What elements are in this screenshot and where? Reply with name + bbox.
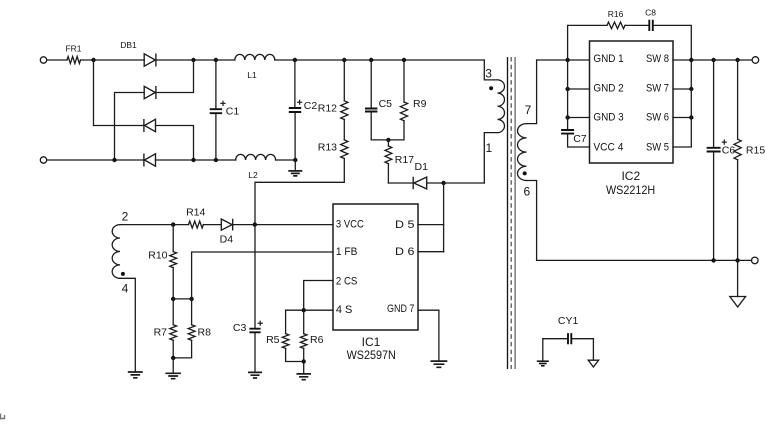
node R10 bottom: [171, 297, 175, 301]
wire row2 left + vertical x=114.5: [115, 93, 145, 161]
wire bottom rail to C1: [156, 159, 236, 161]
ground GND7: [431, 361, 448, 367]
wire secondary pin7 to GND1: [537, 59, 590, 61]
svg-text:C2: C2: [304, 100, 318, 112]
svg-text:4 S: 4 S: [336, 304, 353, 316]
svg-text:C7: C7: [573, 133, 587, 145]
svg-text:C1: C1: [226, 106, 240, 118]
node D1/D5D6 junction: [441, 181, 445, 185]
ground C3: [248, 372, 262, 378]
ground CY1 right (triangle): [588, 360, 598, 367]
wire D6 stub: [418, 251, 444, 253]
resistor R8: [188, 325, 195, 341]
transformer secondary winding: [518, 124, 527, 181]
resistor R15: [735, 58, 739, 62]
svg-text:1: 1: [485, 141, 492, 155]
wire bottom output rail: [537, 259, 752, 261]
svg-text:R15: R15: [746, 145, 765, 157]
wire top rail to primary: [344, 59, 484, 61]
svg-text:R17: R17: [395, 154, 414, 166]
svg-text:2: 2: [122, 210, 129, 224]
svg-text:IC1: IC1: [362, 335, 381, 349]
svg-text:CY1: CY1: [558, 315, 579, 327]
svg-text:2 CS: 2 CS: [336, 276, 358, 288]
ground triangle right: [730, 297, 746, 308]
wire SW8 rail: [673, 59, 752, 61]
node top rail R12: [342, 58, 346, 62]
resistor R9: [402, 58, 406, 62]
wire to right ground: [737, 260, 739, 296]
svg-text:SW 6: SW 6: [646, 111, 669, 123]
svg-text:3 VCC: 3 VCC: [336, 219, 364, 231]
svg-text:6: 6: [523, 184, 530, 198]
svg-text:SW 5: SW 5: [646, 141, 669, 153]
svg-text:7: 7: [525, 103, 532, 117]
wire primary bottom bend: [484, 133, 497, 183]
svg-text:GND 3: GND 3: [593, 111, 623, 123]
resistor R14: [189, 221, 204, 228]
diode D4 (right-pointing): [221, 219, 232, 231]
ground aux winding: [128, 372, 143, 378]
wire row3 right down to bottom rail: [156, 126, 194, 161]
svg-text:WS2597N: WS2597N: [347, 348, 396, 362]
wire R14 to D4: [203, 224, 221, 226]
node CS/S/R6: [302, 308, 306, 312]
svg-text:R9: R9: [413, 98, 427, 110]
resistor R12: [343, 60, 345, 101]
svg-text:R16: R16: [608, 9, 624, 19]
wire snubber loop left: [568, 25, 607, 60]
diode DB1c (row3, left-pointing): [144, 119, 156, 132]
svg-text:IC2: IC2: [621, 169, 640, 183]
transformer core lines: [507, 57, 509, 369]
svg-text:SW 7: SW 7: [646, 83, 669, 95]
wire SW6 stub: [673, 117, 691, 119]
wire SW7 stub: [673, 88, 691, 90]
svg-text:C8: C8: [645, 8, 656, 18]
capacitor CY1: [543, 338, 594, 340]
svg-text:C6: C6: [722, 145, 736, 157]
svg-text:R10: R10: [148, 249, 167, 261]
svg-text:DB1: DB1: [120, 40, 137, 50]
wire FR1 to node: [81, 59, 145, 61]
capacitor C1 (polarized): [214, 58, 218, 62]
wire SW5 stub and right vertical: [673, 60, 691, 147]
wire D4 to IC1 pin3: [233, 224, 333, 226]
svg-text:R12: R12: [318, 103, 337, 115]
wire terminal to FR1: [47, 59, 67, 61]
svg-text:R7: R7: [154, 326, 168, 338]
svg-text:VCC 4: VCC 4: [593, 141, 623, 153]
aux phase dot: [121, 272, 125, 276]
secondary phase dot: [523, 171, 527, 175]
wire CY1 left to ground: [542, 339, 544, 362]
wire bottom rail terminal to diode: [47, 159, 144, 161]
resistor R6: [303, 310, 305, 333]
wire left vertical AC1 (x=93.5): [93, 60, 95, 126]
ground under C2: [294, 160, 296, 171]
wire secondary bottom bend: [527, 181, 537, 261]
wire top rail C1 to L1: [216, 59, 235, 61]
resistor R16: [607, 22, 625, 29]
wire CS corner: [304, 281, 333, 311]
node R8 top / FB drop: [189, 297, 193, 301]
svg-text:4: 4: [122, 282, 129, 296]
primary phase dot: [489, 86, 493, 90]
svg-text:R5: R5: [266, 334, 280, 346]
input terminal top-left: [40, 57, 46, 63]
wire S row to R5/R6: [286, 309, 333, 311]
wire R16 to C8: [625, 24, 649, 26]
node C5/R9/R17: [386, 138, 390, 142]
ground R7/R8: [172, 358, 174, 373]
transformer primary winding: [498, 80, 505, 133]
ground CY1 left (earth): [537, 361, 549, 366]
svg-text:GND 1: GND 1: [593, 53, 623, 65]
svg-text:R6: R6: [310, 334, 324, 346]
wire row2 right up to top rail: [156, 60, 194, 93]
output terminal top-right: [752, 57, 759, 64]
controller IC2 box: [590, 41, 674, 163]
capacitor C7: [561, 130, 574, 134]
svg-text:3: 3: [485, 66, 492, 80]
wire secondary top bend: [527, 60, 537, 124]
wire R12 to R13: [343, 120, 345, 140]
svg-text:R13: R13: [318, 142, 337, 154]
diode DB1a (top row, right-pointing): [144, 54, 156, 67]
wire junction down to D5/D6: [443, 183, 445, 252]
wire L2 to C2 bottom: [276, 159, 296, 161]
svg-text:L2: L2: [248, 170, 258, 180]
svg-text:WS2212H: WS2212H: [606, 183, 655, 197]
wire R17 to D1: [388, 182, 413, 184]
wire D5 stub: [418, 224, 444, 226]
wire CY1 right to ground: [592, 339, 594, 361]
svg-text:R14: R14: [186, 206, 205, 218]
svg-text:R8: R8: [198, 326, 212, 338]
inductor L2: [236, 154, 276, 160]
capacitor C2 (polarized): [293, 58, 297, 62]
wire primary top bend: [484, 60, 497, 80]
wire DB1a to top rail: [156, 59, 216, 61]
diode DB1d (row4, left-pointing): [144, 154, 156, 167]
svg-text:C3: C3: [233, 322, 247, 334]
wire GND2 stub: [568, 88, 590, 90]
resistor R17: [385, 146, 392, 164]
wire D1 to primary bottom: [427, 182, 485, 184]
capacitor C6 (polarized): [711, 58, 715, 62]
wire FB vertical and horizontal to IC1 pin1: [192, 252, 333, 299]
wire left vertical through C7: [568, 60, 590, 147]
svg-text:D1: D1: [415, 161, 429, 173]
svg-text:1 FB: 1 FB: [336, 246, 358, 258]
ground R5/R6: [296, 374, 311, 380]
diode D1 (left-pointing): [413, 177, 427, 189]
page artifact bottom-left: [1, 414, 5, 420]
diode DB1b (row2, right-pointing): [144, 86, 156, 99]
wire C8 to SW8 node: [653, 25, 692, 60]
resistor R5: [285, 310, 287, 333]
wire L1 to C2 node: [275, 59, 345, 61]
node after FR1: [91, 58, 95, 62]
svg-text:L1: L1: [247, 70, 257, 80]
aux winding (pins 2/4): [112, 225, 120, 279]
wire row3 left from AC1: [94, 125, 144, 127]
wire aux bottom to ground: [120, 278, 135, 372]
svg-text:SW 8: SW 8: [646, 53, 669, 65]
node R5/R6 bottom: [302, 359, 306, 363]
resistor FR1: [67, 57, 80, 64]
capacitor C5: [369, 58, 373, 62]
wire aux top / VCC line: [120, 224, 189, 226]
svg-text:D 5: D 5: [395, 219, 414, 231]
svg-text:GND 2: GND 2: [593, 83, 623, 95]
node R7/R8 bottom: [171, 356, 175, 360]
wire GND3 stub: [568, 117, 590, 119]
output terminal bottom-right: [752, 257, 759, 264]
wire GND7 to ground: [418, 310, 439, 361]
wire R13 down-left-down to VCC node: [255, 159, 344, 225]
inductor L1: [235, 54, 275, 60]
capacitor C8: [649, 20, 653, 31]
svg-text:C5: C5: [379, 98, 393, 110]
resistor R7: [172, 299, 174, 325]
capacitor C3 (polarized): [254, 225, 256, 373]
op-amp/controller IC1 box: [333, 204, 418, 330]
wire R10-R8 top link: [173, 298, 191, 300]
resistor R13: [341, 140, 348, 159]
resistor R10: [172, 225, 174, 252]
svg-text:GND 7: GND 7: [387, 303, 414, 315]
wire R9 to junction: [388, 121, 404, 140]
svg-text:D4: D4: [220, 233, 234, 245]
input terminal bottom-left: [40, 157, 46, 163]
svg-text:D 6: D 6: [395, 246, 414, 258]
svg-text:FR1: FR1: [65, 44, 81, 54]
